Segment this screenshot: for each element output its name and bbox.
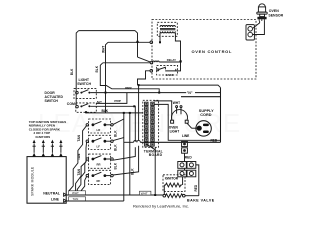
svg-text:PRP: PRP [125, 86, 131, 90]
svg-text:BLK: BLK [113, 130, 117, 137]
svg-text:RED: RED [211, 139, 218, 143]
wire diagonal to T2 [138, 57, 151, 62]
node WHT crossing [105, 92, 107, 94]
terminal board [143, 100, 163, 157]
wire WHT vertical [106, 42, 109, 113]
svg-text:OVEN: OVEN [269, 9, 279, 13]
svg-text:RR: RR [97, 162, 101, 166]
svg-text:BAKE: BAKE [166, 73, 174, 77]
terminal T2 on oven control [150, 61, 153, 64]
svg-text:"N": "N" [187, 91, 193, 95]
bake valve coil [163, 194, 185, 198]
oven control box [152, 20, 256, 80]
wire tan vertical V1 [123, 113, 125, 201]
svg-text:TAN: TAN [77, 134, 81, 141]
svg-text:BLK: BLK [70, 68, 74, 75]
wire light switch to NC jog [96, 93, 127, 104]
wire board bottom drop [154, 147, 156, 195]
top ignition switch LF [86, 135, 113, 149]
svg-text:SPARK MODULE: SPARK MODULE [31, 166, 35, 196]
svg-text:RELAY: RELAY [167, 58, 176, 62]
connector pair row 1 [178, 162, 196, 169]
svg-text:RF: RF [97, 179, 101, 183]
oven light bulb [169, 101, 188, 133]
wire tan LR staircase [69, 126, 87, 191]
node PRP junction [158, 92, 160, 94]
spark electrode 1 [32, 140, 36, 157]
node door com [85, 111, 87, 113]
plug lead [192, 127, 197, 129]
door actuated switch [45, 91, 103, 112]
svg-text:TAN: TAN [73, 197, 79, 201]
oven sensor [257, 4, 284, 21]
terminal T1 on oven control [150, 41, 153, 44]
wire T3 left exit [138, 71, 151, 85]
wire sensor to connector bottom [253, 21, 265, 35]
oven sensor connector [246, 25, 254, 40]
bake relay contact [157, 63, 181, 77]
wire tan RF staircase [81, 176, 86, 191]
svg-text:LR: LR [97, 128, 101, 132]
svg-text:LINE: LINE [182, 134, 189, 138]
ignitor [163, 175, 185, 194]
wire NC PRP [90, 106, 135, 160]
hop 1 [134, 140, 137, 142]
terminal T3 on oven control [150, 70, 153, 73]
transformer T1 [157, 22, 177, 36]
wire pair1 right down to bake valve [196, 165, 199, 196]
node junction x137 [136, 41, 138, 43]
svg-text:IGNITOR: IGNITOR [165, 177, 179, 181]
svg-text:WHT: WHT [141, 191, 148, 195]
svg-text:SENSOR: SENSOR [268, 13, 283, 17]
svg-text:BOARD: BOARD [149, 153, 163, 157]
label TAN flag module [69, 197, 86, 201]
wire BLK left vertical [76, 31, 79, 106]
wire sw2 riser [113, 138, 124, 141]
top ignition switch LR [86, 119, 113, 133]
svg-text:WHT: WHT [101, 46, 105, 53]
svg-text:OVEN CONTROL: OVEN CONTROL [192, 49, 233, 54]
wire BLK corner x100 [103, 62, 150, 64]
svg-text:BAKE VALVE: BAKE VALVE [187, 198, 215, 202]
terminal line arrow [64, 199, 67, 202]
spark electrode 3 [51, 140, 55, 157]
wire transformer right lead to relay node [175, 33, 180, 62]
wire light switch to supply box [90, 92, 220, 94]
node sw4 [138, 84, 140, 86]
svg-text:BLK: BLK [102, 109, 109, 113]
node NC junction [133, 105, 135, 107]
label WHT flag 2 [140, 191, 151, 195]
ignition switch text block [29, 120, 66, 139]
inline connector squares [182, 141, 188, 153]
top ignition switch RF [86, 170, 113, 184]
svg-text:BLK: BLK [113, 162, 117, 169]
light switch [74, 78, 96, 99]
terminal neutral arrow [64, 193, 67, 196]
wire tan LF staircase [76, 142, 87, 191]
svg-text:WHT: WHT [173, 101, 180, 105]
svg-text:BLK: BLK [130, 168, 134, 175]
wire tan RR staircase [77, 160, 86, 191]
wire pair1 to pair2 [184, 168, 186, 170]
hop 2 [137, 140, 140, 142]
svg-text:WHT: WHT [72, 191, 79, 195]
spark electrode 2 [41, 140, 45, 157]
connector pair row 2 [178, 170, 196, 177]
svg-text:CORD: CORD [200, 113, 211, 117]
svg-text:Rendered by LeadVenture, Inc.: Rendered by LeadVenture, Inc. [133, 203, 189, 208]
label WHT flag module [69, 191, 86, 195]
wire relay feed horizontal [138, 85, 221, 88]
wire door switch COM BLK [86, 111, 143, 114]
wire transformer left lead node [159, 41, 161, 43]
node relay junction [180, 60, 182, 62]
wire supply box to line run [124, 141, 134, 143]
spark module box [27, 157, 66, 204]
wire board stub to lamp [154, 101, 172, 120]
wire vertical V2 [129, 113, 131, 195]
svg-text:COM: COM [67, 102, 75, 106]
svg-text:NEUTRAL: NEUTRAL [43, 191, 61, 195]
svg-text:NC: NC [97, 101, 102, 105]
wire neutral WHT run [67, 194, 163, 196]
wire connector to pair1 [184, 153, 186, 161]
wire transformer left lead [159, 33, 161, 42]
svg-text:RED: RED [194, 184, 198, 191]
spark electrode 4 [59, 140, 63, 157]
wire WHT vertical riser [108, 41, 150, 43]
svg-text:SWITCH: SWITCH [45, 99, 59, 103]
svg-text:IGNITORS: IGNITORS [36, 135, 51, 139]
svg-text:BLK: BLK [95, 65, 99, 72]
svg-text:TAN: TAN [77, 168, 81, 175]
wire sensor to connector top [253, 21, 260, 28]
wire sw1 riser [113, 119, 124, 125]
svg-text:SWITCH: SWITCH [77, 82, 91, 86]
supply cord plug [196, 121, 211, 136]
node V1 [123, 112, 125, 114]
wire top left horizontal BLK [79, 30, 135, 32]
wire corner down to node [135, 31, 138, 57]
svg-text:BLK: BLK [113, 144, 117, 151]
svg-text:LF: LF [97, 145, 101, 149]
svg-text:RED: RED [185, 156, 193, 160]
relay coil [153, 58, 181, 62]
wire board diag stub [146, 144, 155, 150]
node board drop junction [154, 194, 156, 196]
node V2 [129, 112, 131, 114]
svg-text:LINE: LINE [51, 197, 60, 201]
svg-text:PRP: PRP [114, 99, 120, 103]
svg-text:LIGHT: LIGHT [170, 129, 180, 133]
top ignition switch RR [86, 154, 113, 168]
wire bake valve right [185, 195, 199, 198]
wire line TAN run [67, 200, 124, 202]
wire board stub to line run [154, 104, 220, 140]
wire sw4 riser [113, 85, 139, 175]
supply box [140, 88, 220, 143]
